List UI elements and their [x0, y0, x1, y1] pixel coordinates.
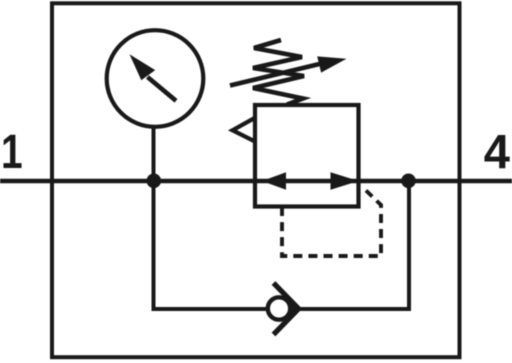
- bottom wire right segment: [299, 307, 410, 311]
- check valve CV1 ball: [268, 297, 290, 319]
- flow arrow left head: [262, 172, 286, 189]
- junction dot left: [147, 174, 162, 189]
- flow arrow right head: [331, 172, 359, 189]
- gauge stem wire: [152, 126, 156, 181]
- adjustment arrow head: [317, 56, 346, 72]
- svg-text:4: 4: [484, 126, 511, 180]
- check valve CV1 seat: [274, 283, 299, 335]
- enclosure box: [52, 3, 460, 357]
- gauge needle shaft: [148, 77, 177, 101]
- gauge needle head: [130, 54, 156, 80]
- junction dot right: [401, 174, 416, 189]
- branch wire right vertical: [407, 181, 411, 311]
- svg-text:1: 1: [1, 125, 23, 179]
- check valve CV1 seat vertex fill: [288, 302, 299, 316]
- adjustment arrow shaft: [230, 63, 322, 85]
- pressure gauge G1 dial: [107, 30, 204, 127]
- relief vent triangle: [233, 118, 256, 142]
- pilot line (dashed): [282, 191, 381, 257]
- branch wire left vertical: [152, 181, 156, 309]
- bottom wire left segment: [152, 307, 269, 311]
- regulator body R1: [255, 105, 359, 207]
- spring (adjustment): [253, 40, 304, 105]
- main flow line from port 1 to port 4: [0, 179, 512, 184]
